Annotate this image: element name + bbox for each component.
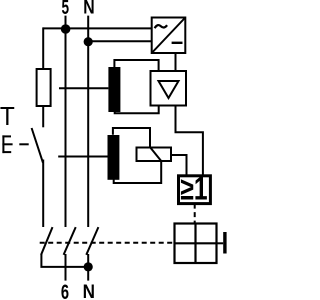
wire: CT2 primary tap bbox=[58, 156, 108, 158]
test contact blade bbox=[32, 128, 43, 163]
mechanical link dash from button to contact bbox=[19, 143, 28, 145]
resistor (test resistor) bbox=[37, 69, 51, 106]
svg-text:N: N bbox=[83, 281, 95, 300]
wire: relay to OR gate bbox=[171, 155, 187, 176]
amplifier U2 box bbox=[151, 71, 187, 106]
wire: resistor to test contact bbox=[42, 106, 44, 127]
wire: amplifier to OR gate elbow bbox=[176, 106, 203, 176]
svg-text:≥1: ≥1 bbox=[180, 172, 207, 208]
DC minus symbol bbox=[172, 42, 183, 44]
wire: line 5 vertical bbox=[65, 16, 67, 227]
dashed link: OR gate to trip mechanism bbox=[194, 204, 196, 224]
transformer CT2 core bbox=[108, 135, 120, 180]
wire: line N vertical bbox=[87, 16, 89, 227]
op-amp U1: AC/DC converter box bbox=[152, 18, 186, 54]
relay K1: permanent magnet release bbox=[137, 148, 172, 162]
wire: pole 1 bottom to N node bbox=[41, 254, 88, 267]
wire: CT1 primary tap bbox=[59, 87, 108, 89]
test push-button actuator symbol bbox=[2, 135, 12, 153]
wire: test branch down to resistor bbox=[42, 27, 44, 69]
wire: trip box to armature bar bbox=[217, 242, 224, 244]
wire: pole 3 bottom to terminal N bbox=[87, 254, 89, 281]
wire: CT1 secondary bottom loop bbox=[115, 106, 159, 114]
wire: CT2 secondary bottom loop bbox=[114, 161, 162, 183]
amplifier triangle bbox=[159, 81, 179, 98]
svg-text:N: N bbox=[83, 0, 94, 18]
node: junction dot on line N bbox=[84, 37, 93, 46]
wire: converter to amplifier bbox=[175, 53, 177, 71]
svg-text:T: T bbox=[0, 103, 15, 132]
wire: CT1 secondary top loop bbox=[114, 60, 158, 71]
dashed link: trip linkage to poles bbox=[40, 242, 175, 244]
wire: tap from line N to power supply bbox=[88, 40, 152, 42]
wire: test contact to breaker pole bbox=[42, 160, 44, 228]
transformer CT1 core bbox=[108, 67, 120, 112]
trip mechanism box with cross bbox=[175, 224, 217, 264]
armature bar bbox=[223, 232, 226, 254]
node: junction dot on line 5 bbox=[61, 24, 71, 34]
logic gate U3: OR (geq 1) box bbox=[179, 176, 211, 204]
AC tilde symbol bbox=[155, 25, 168, 28]
breaker pole 3 blade (line N) bbox=[86, 227, 98, 255]
node: junction dot on line N bottom bbox=[84, 262, 93, 271]
breaker pole 2 blade (line 5) bbox=[64, 227, 76, 255]
wire: tap from line 5 to power supply bbox=[43, 27, 152, 29]
breaker pole 1 blade (test line) bbox=[41, 227, 52, 255]
wire: pole 2 bottom to terminal 6 bbox=[65, 254, 67, 281]
svg-text:6: 6 bbox=[61, 281, 69, 300]
wire: CT2 secondary top loop bbox=[113, 128, 150, 148]
